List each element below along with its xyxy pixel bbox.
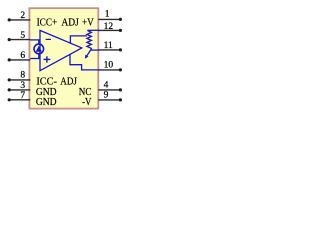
wire current source top stub bbox=[38, 40, 40, 45]
svg-text:6: 6 bbox=[20, 51, 25, 61]
svg-text:-V: -V bbox=[82, 97, 92, 108]
wire pin 4 bbox=[98, 89, 120, 91]
terminal dot pin 7 bbox=[8, 98, 11, 101]
wire op-amp to pin 10 bbox=[70, 54, 99, 70]
op-amp U1A triangle bbox=[40, 30, 82, 70]
op-amp plus label bbox=[44, 59, 51, 60]
wire pin 7 bbox=[9, 99, 30, 101]
terminal dot pin 3 bbox=[8, 88, 11, 91]
wire pin 5 bbox=[9, 39, 30, 41]
terminal dot pin 6 bbox=[8, 58, 11, 61]
arrow shaft (adjust arrow) bbox=[87, 50, 91, 56]
wire op-amp output to resistor top bbox=[70, 36, 87, 44]
IC body U1 bbox=[29, 8, 98, 108]
svg-text:1: 1 bbox=[105, 10, 110, 20]
svg-text:ADJ: ADJ bbox=[60, 77, 77, 88]
adjust arrowhead bbox=[85, 55, 89, 59]
svg-text:2: 2 bbox=[20, 11, 25, 21]
wire non-inverting input (pin 6 row) bbox=[30, 58, 40, 60]
svg-text:3: 3 bbox=[20, 81, 25, 91]
op-amp minus label bbox=[46, 39, 51, 40]
wire pin 3 bbox=[9, 89, 30, 91]
svg-text:GND: GND bbox=[36, 97, 57, 108]
terminal dot pin 1 bbox=[119, 18, 122, 21]
svg-text:9: 9 bbox=[104, 91, 109, 101]
svg-text:8: 8 bbox=[20, 71, 25, 81]
current source I1 circle bbox=[34, 44, 44, 54]
wire pin 12 bbox=[98, 29, 120, 31]
terminal dot pin 10 bbox=[119, 68, 122, 71]
wire current source bottom stub bbox=[38, 53, 40, 58]
terminal dot pin 11 bbox=[119, 48, 122, 51]
wire pin 6 bbox=[9, 59, 30, 61]
wire pin 2 bbox=[9, 19, 30, 21]
wire resistor bottom to pin 11 bbox=[91, 49, 99, 51]
wire pin 9 bbox=[98, 99, 120, 101]
wire pin 8 bbox=[9, 79, 30, 81]
wire pin 1 bbox=[98, 18, 120, 20]
terminal dot pin 9 bbox=[119, 98, 122, 101]
svg-text:5: 5 bbox=[20, 31, 25, 41]
terminal dot pin 2 bbox=[8, 18, 11, 21]
current source I1 arrow bbox=[36, 46, 42, 52]
svg-text:4: 4 bbox=[104, 81, 109, 91]
svg-text:10: 10 bbox=[104, 60, 114, 70]
wire resistor top to pin 12 bbox=[87, 29, 99, 31]
svg-text:12: 12 bbox=[104, 22, 114, 32]
wire pin 10 bbox=[98, 69, 120, 71]
svg-text:ICC+: ICC+ bbox=[37, 17, 58, 28]
terminal dot pin 5 bbox=[8, 38, 11, 41]
terminal dot pin 12 bbox=[119, 29, 122, 32]
svg-text:ADJ: ADJ bbox=[61, 17, 79, 28]
wire pin 11 bbox=[98, 49, 120, 51]
resistor R1 zigzag bbox=[87, 30, 92, 50]
wire inverting input (pin 5 row) bbox=[30, 39, 40, 41]
svg-text:+V: +V bbox=[82, 17, 95, 28]
terminal dot pin 4 bbox=[119, 88, 122, 91]
svg-text:11: 11 bbox=[104, 41, 113, 51]
terminal dot pin 8 bbox=[8, 78, 11, 81]
svg-text:7: 7 bbox=[20, 91, 25, 101]
